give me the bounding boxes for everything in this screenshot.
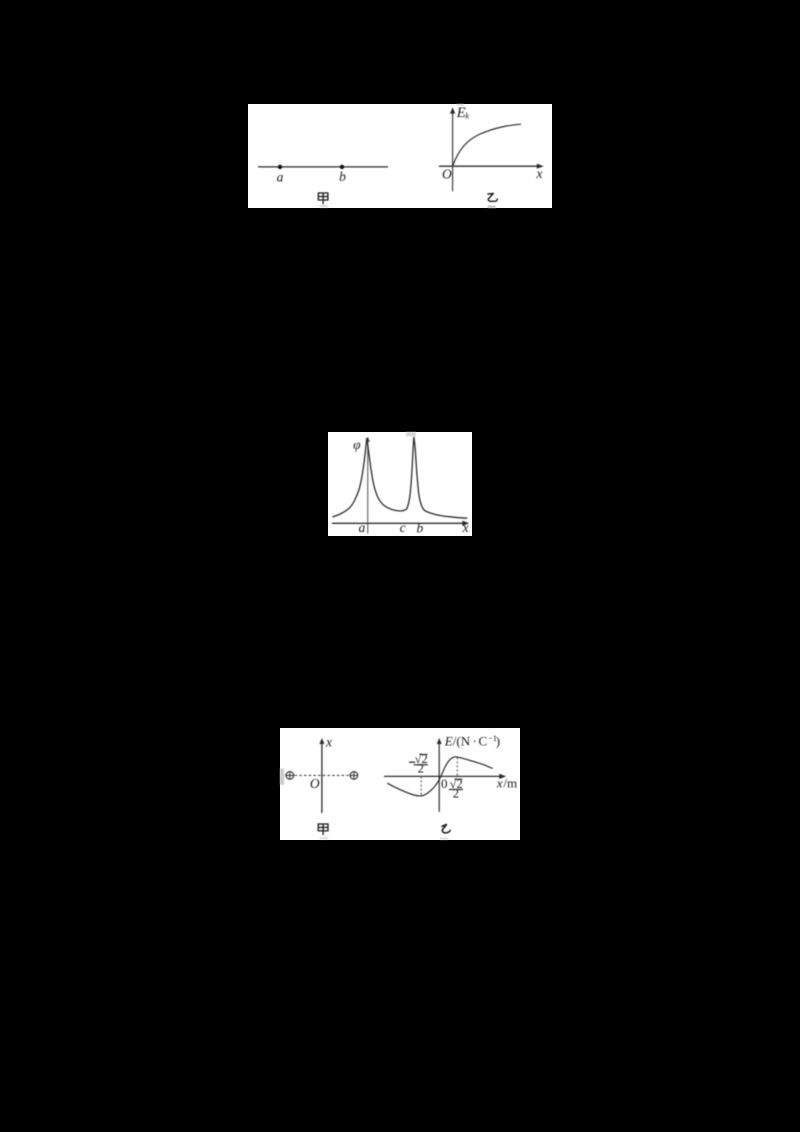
svg-text:O: O — [310, 776, 320, 791]
svg-text:/m: /m — [503, 775, 517, 790]
svg-text:E: E — [456, 104, 466, 120]
svg-text:x: x — [461, 520, 468, 535]
svg-text:·: · — [473, 733, 477, 748]
svg-text:x: x — [535, 165, 542, 180]
svg-text:2: 2 — [418, 761, 424, 775]
svg-text:a: a — [358, 520, 365, 535]
svg-text:O: O — [442, 166, 452, 181]
svg-text:b: b — [339, 169, 346, 184]
svg-text:C: C — [479, 733, 488, 748]
svg-text:b: b — [416, 521, 423, 536]
svg-text:0: 0 — [441, 775, 448, 790]
svg-text:2: 2 — [453, 786, 459, 800]
svg-text:c: c — [399, 520, 405, 535]
svg-text:k: k — [465, 110, 469, 120]
svg-text:φ: φ — [353, 437, 361, 452]
svg-text:): ) — [496, 733, 500, 748]
svg-text:/(N: /(N — [453, 733, 471, 748]
svg-text:x: x — [496, 775, 503, 790]
svg-text:a: a — [277, 169, 284, 184]
svg-text:E: E — [444, 733, 453, 748]
svg-text:x: x — [325, 734, 332, 749]
